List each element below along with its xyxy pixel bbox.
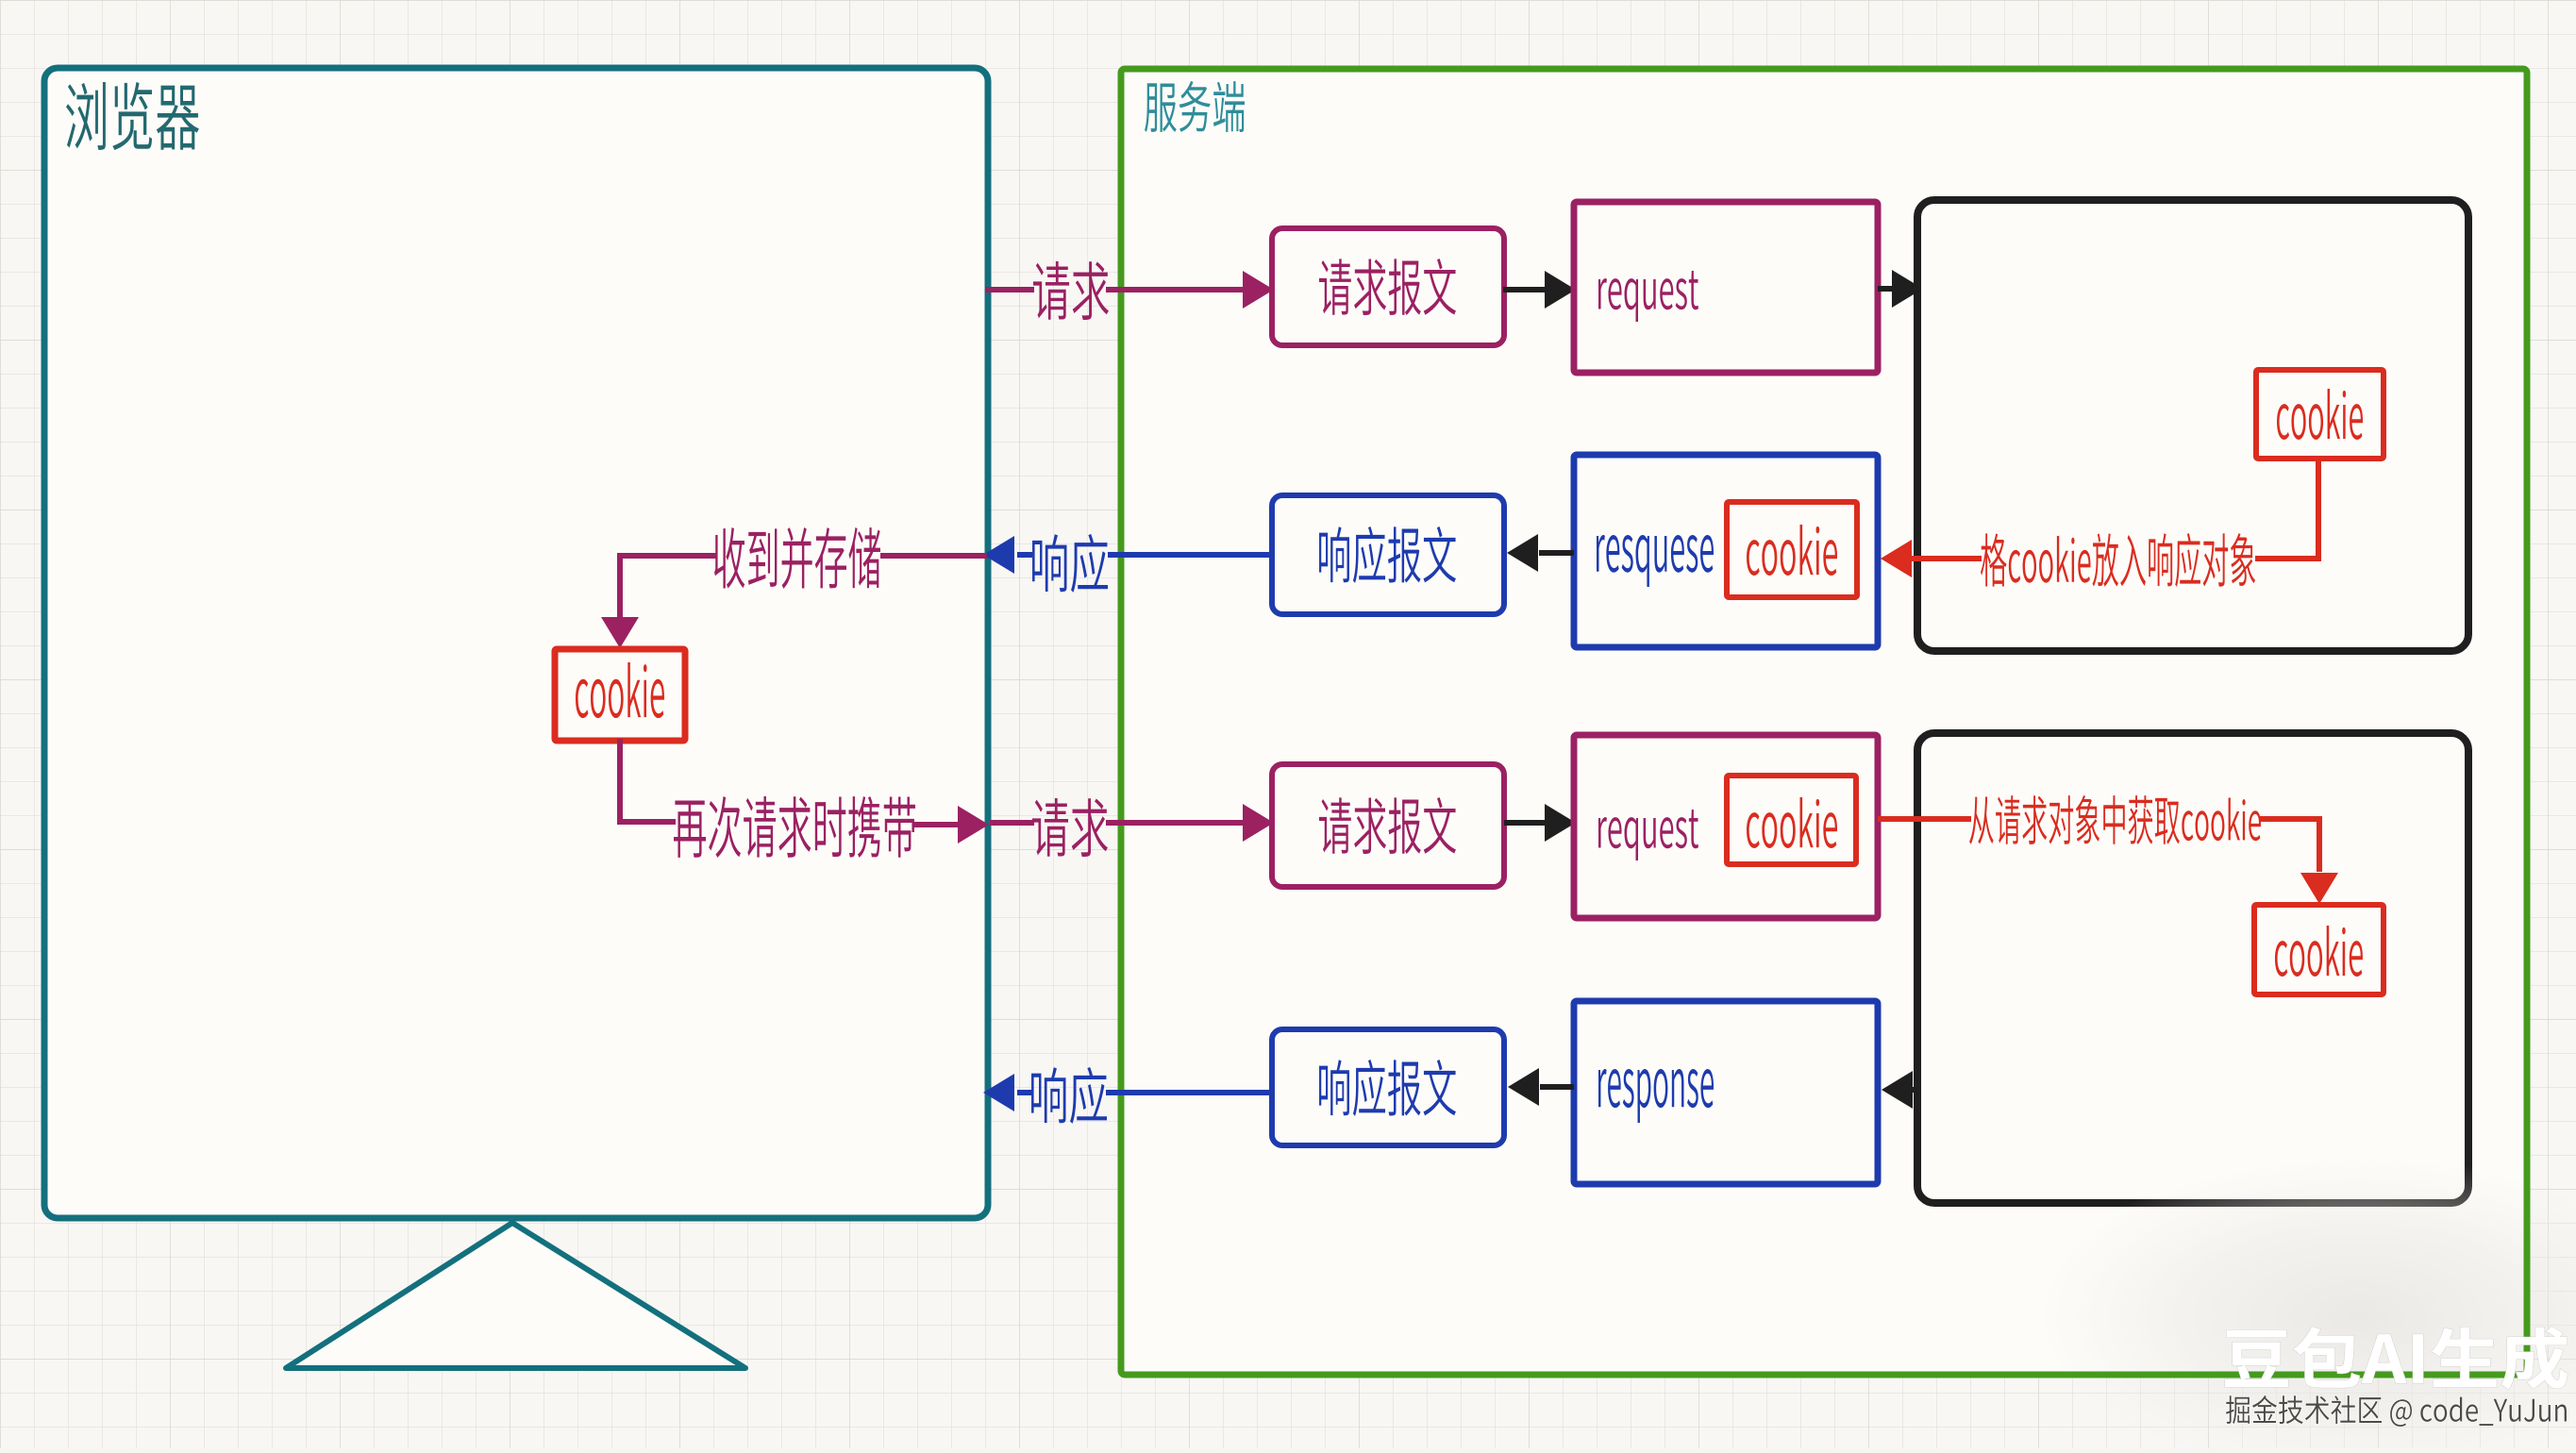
cookie box D [1727, 776, 1856, 864]
wire black row1 b [1878, 286, 1897, 292]
box 请求报文 1 [1272, 228, 1504, 345]
wire black row2 [1539, 550, 1574, 556]
wire red row2 b [1911, 556, 1982, 561]
box request 2 [1574, 735, 1878, 918]
arrowhead black row3 [1545, 804, 1576, 842]
arrowhead purple row3 [958, 806, 989, 843]
label 收到并存储 [714, 527, 880, 589]
label 服务端 [1145, 81, 1245, 132]
label 响应报文 2 [1319, 1060, 1456, 1116]
label 响应 row2 [1032, 534, 1108, 593]
watermark glow [2033, 1156, 2576, 1453]
wire red row2 a [2255, 556, 2321, 561]
server box [1121, 69, 2527, 1375]
watermark 豆包AI生成 halo [2225, 1327, 2568, 1390]
arrowhead request row1 [1243, 271, 1274, 309]
label request 2 [1598, 810, 1698, 860]
wire red row3 a [1878, 816, 1971, 822]
wire request row1 to box [1106, 287, 1244, 292]
wire request row3 to box [1106, 820, 1244, 826]
label 再次请求时携带 [674, 796, 915, 858]
cookie box A [2256, 370, 2384, 459]
label cookie A [2277, 389, 2363, 440]
server border repaint bottom [1878, 1170, 2527, 1375]
response box [1574, 1001, 1878, 1184]
box request 1 [1574, 202, 1878, 373]
arrowhead black row1 b [1892, 270, 1923, 308]
servlet box 2 [1917, 733, 2468, 1203]
servlet box 1 [1917, 200, 2468, 651]
cookie box C [555, 649, 685, 741]
label resquese [1597, 535, 1714, 587]
arrowhead black row2 [1507, 534, 1538, 572]
label 响应报文 1 [1319, 526, 1456, 583]
wire blue row2 short [1017, 552, 1032, 558]
arrowhead purple down [601, 617, 639, 648]
label 请求报文 1 [1319, 259, 1456, 315]
wire black row3 [1504, 820, 1549, 826]
wire black row4 b [1540, 1084, 1574, 1090]
label cookie E [2275, 926, 2363, 977]
wire 再次请求时携带 left [617, 819, 676, 825]
label 响应 row4 [1031, 1067, 1107, 1124]
browser stand triangle [286, 1223, 745, 1368]
response obj box resquese [1574, 455, 1878, 647]
arrowhead red down [2300, 873, 2338, 904]
wire red row3 b [2259, 816, 2319, 822]
wire request row1 from browser [985, 287, 1034, 292]
label 请求报文 2 [1319, 797, 1456, 854]
wire purple cookie down [617, 739, 623, 823]
cookie box E [2254, 905, 2384, 994]
watermark 豆包AI生成 [2225, 1327, 2568, 1390]
browser box [44, 68, 988, 1218]
wire blue row2 [1108, 552, 1274, 558]
wire blue row4 short [1017, 1090, 1032, 1095]
wire 收到并存储 right [880, 553, 987, 559]
wire black row1 a [1503, 287, 1549, 292]
arrowhead request row3 [1243, 804, 1274, 842]
label response [1598, 1069, 1714, 1123]
box 响应报文 2 [1272, 1029, 1504, 1145]
label 请求 row3 [1032, 798, 1108, 857]
arrowhead blue row4 [983, 1074, 1014, 1111]
wire red cookie A down [2316, 457, 2321, 559]
wire red row3 down [2317, 816, 2322, 872]
label cookie C [576, 662, 664, 718]
wire blue row4 [1106, 1090, 1274, 1095]
cookie box B [1727, 502, 1857, 597]
label cookie D [1747, 797, 1837, 848]
label 请求 row1 [1033, 261, 1109, 320]
arrowhead black row4 b [1508, 1068, 1539, 1106]
wire purple down to cookie [617, 553, 623, 617]
wire request row3 from browser [990, 820, 1034, 826]
label request 1 [1598, 271, 1698, 322]
wire 收到并存储 left [617, 553, 717, 559]
arrowhead red row2 [1881, 540, 1912, 577]
label 从请求对象中获取cookie [1969, 795, 2261, 844]
arrowhead black row1 a [1545, 271, 1576, 309]
wire 再次请求时携带 right [913, 822, 958, 827]
wire black row4 a [1912, 1087, 1919, 1093]
label 浏览器 [66, 82, 199, 150]
label 格cookie放入响应对象 [1981, 533, 2255, 587]
box 请求报文 2 [1272, 764, 1504, 887]
arrowhead black row4 a [1882, 1071, 1913, 1109]
arrowhead blue row2 [983, 536, 1014, 574]
label cookie B [1747, 525, 1837, 576]
watermark 掘金技术社区 [2226, 1395, 2567, 1427]
box 响应报文 1 [1272, 495, 1504, 614]
